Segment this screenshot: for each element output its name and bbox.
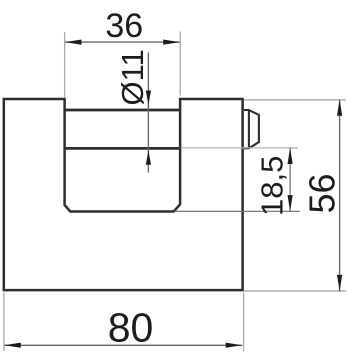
svg-text:18,5: 18,5 bbox=[255, 156, 290, 216]
dim 80 left extension line bbox=[3, 293, 5, 352]
dim O11 dimension line bbox=[147, 52, 149, 172]
svg-text:36: 36 bbox=[105, 7, 143, 45]
dim 18,5 bottom extension line bbox=[175, 210, 301, 212]
dim 18,5 bottom arrow bbox=[288, 195, 293, 211]
padlock body outline bbox=[4, 99, 243, 290]
dim 36 left arrow bbox=[65, 40, 82, 45]
dim 18,5 top arrow bbox=[288, 148, 293, 164]
dim 36 dimension line bbox=[65, 41, 180, 43]
dim 18,5 dimension line bbox=[289, 148, 291, 211]
dim 80 right arrow bbox=[226, 343, 243, 348]
svg-text:56: 56 bbox=[302, 173, 343, 213]
bolt cylinder top line bbox=[65, 109, 181, 112]
knob (bolt end) bbox=[244, 110, 259, 148]
svg-text:80: 80 bbox=[108, 305, 154, 351]
dim O11 top arrow bbox=[146, 91, 151, 105]
dim 56 top arrow bbox=[337, 100, 342, 116]
dim 56 top extension line bbox=[244, 99, 346, 101]
bolt cylinder bottom line bbox=[65, 147, 181, 150]
dim 80 right extension line bbox=[243, 293, 245, 352]
dim 80 dimension line bbox=[4, 344, 242, 346]
dim O11 bottom arrow bbox=[146, 150, 151, 164]
dim 80 left arrow bbox=[4, 343, 21, 348]
dim 36 right arrow bbox=[163, 40, 180, 45]
dim 56 dimension line bbox=[339, 100, 341, 292]
dim 36 left extension line bbox=[64, 32, 66, 98]
dim 36 right extension line bbox=[179, 32, 181, 96]
dim 56 bottom extension line bbox=[244, 290, 346, 292]
dim 18,5 top extension line bbox=[181, 147, 298, 149]
dim 56 bottom arrow bbox=[337, 275, 342, 291]
svg-text:Ø11: Ø11 bbox=[115, 49, 150, 105]
